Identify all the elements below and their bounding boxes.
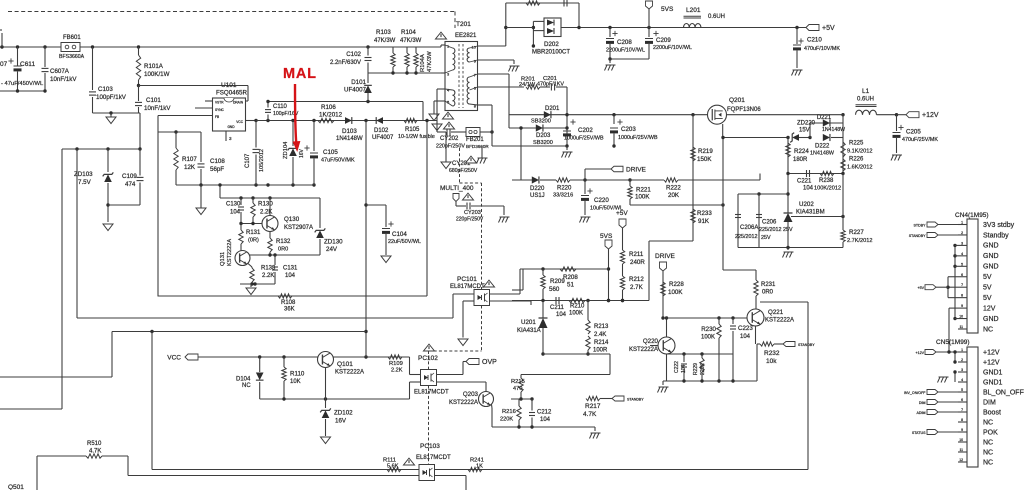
- svg-text:ZD104: ZD104: [283, 141, 289, 159]
- svg-text:C220: C220: [594, 197, 609, 204]
- svg-text:R221: R221: [636, 187, 651, 194]
- svg-text:R230: R230: [701, 326, 716, 333]
- svg-text:+12V: +12V: [983, 349, 1000, 356]
- svg-text:STANDBY: STANDBY: [909, 234, 926, 238]
- svg-text:C101: C101: [146, 97, 161, 104]
- svg-text:100K/1W: 100K/1W: [144, 71, 170, 78]
- svg-text:47K/3W: 47K/3W: [427, 51, 433, 72]
- svg-text:20K: 20K: [668, 192, 680, 199]
- svg-text:10k: 10k: [766, 358, 777, 365]
- svg-text:220pF/250V: 220pF/250V: [436, 144, 465, 150]
- svg-text:Q131: Q131: [220, 252, 226, 266]
- svg-text:R209: R209: [550, 278, 565, 285]
- svg-text:10: 10: [959, 438, 963, 442]
- svg-text:11: 11: [959, 448, 963, 452]
- svg-text:STATUS: STATUS: [912, 431, 926, 435]
- svg-text:GND: GND: [983, 316, 999, 323]
- svg-text:Q130: Q130: [284, 216, 300, 223]
- svg-text:1: 1: [961, 348, 963, 352]
- svg-text:CN5(1M99): CN5(1M99): [936, 339, 970, 346]
- svg-text:NC: NC: [983, 449, 993, 456]
- svg-text:1N4148W: 1N4148W: [336, 136, 363, 142]
- svg-text:R133: R133: [261, 266, 276, 272]
- svg-text:9.1K/2012: 9.1K/2012: [847, 149, 873, 155]
- svg-text:474: 474: [125, 181, 136, 188]
- svg-text:C109: C109: [122, 173, 137, 180]
- svg-text:R219: R219: [698, 148, 713, 155]
- svg-text:D103: D103: [342, 128, 357, 135]
- svg-text:Q101: Q101: [337, 361, 353, 368]
- svg-text:BFD3660R: BFD3660R: [466, 144, 489, 149]
- svg-text:1K/2012: 1K/2012: [319, 112, 343, 119]
- svg-text:C131: C131: [283, 266, 298, 272]
- svg-text:100K: 100K: [701, 335, 715, 341]
- svg-text:11: 11: [959, 325, 963, 329]
- svg-text:0.6UH: 0.6UH: [708, 14, 725, 20]
- svg-text:680pF/250V: 680pF/250V: [449, 168, 478, 174]
- svg-text:R110: R110: [290, 371, 305, 378]
- svg-text:R108: R108: [281, 300, 296, 306]
- svg-text:C211: C211: [550, 305, 565, 311]
- svg-text:12: 12: [959, 458, 963, 462]
- svg-text:R216: R216: [502, 409, 516, 415]
- svg-text:4: 4: [961, 378, 963, 382]
- svg-text:MAL: MAL: [283, 66, 317, 82]
- svg-text:U202: U202: [799, 201, 814, 208]
- svg-text:07: 07: [0, 61, 8, 68]
- svg-text:R132: R132: [276, 239, 291, 245]
- svg-text:R106: R106: [321, 104, 336, 111]
- svg-text:+5V: +5V: [918, 286, 925, 290]
- svg-text:2.4K: 2.4K: [594, 332, 606, 338]
- svg-text:470pF/1KV: 470pF/1KV: [537, 82, 564, 88]
- svg-text:7.5V: 7.5V: [78, 179, 92, 186]
- svg-text:R232: R232: [764, 350, 780, 357]
- svg-text:R233: R233: [697, 210, 712, 217]
- svg-text:C203: C203: [621, 126, 636, 133]
- svg-text:R109: R109: [389, 361, 403, 367]
- svg-text:5.6K: 5.6K: [387, 464, 399, 470]
- svg-text:51: 51: [567, 282, 574, 289]
- svg-text:D101: D101: [351, 79, 366, 86]
- svg-text:CY203: CY203: [464, 210, 481, 216]
- svg-text:8: 8: [961, 294, 963, 298]
- svg-text:C107: C107: [245, 153, 251, 168]
- svg-text:R214: R214: [594, 340, 609, 346]
- svg-text:100K: 100K: [635, 194, 650, 201]
- svg-text:C108: C108: [210, 158, 225, 165]
- svg-text:SYNC: SYNC: [215, 108, 225, 112]
- svg-text:+12V: +12V: [922, 112, 939, 119]
- svg-text:C611: C611: [20, 61, 35, 68]
- svg-text:C222: C222: [674, 361, 680, 373]
- svg-text:Standby: Standby: [983, 232, 1009, 239]
- svg-text:CY202: CY202: [440, 136, 459, 142]
- svg-text:INV_ON/OFF: INV_ON/OFF: [904, 391, 926, 395]
- svg-text:D221: D221: [817, 115, 832, 121]
- svg-text:STANDBY: STANDBY: [798, 343, 815, 347]
- svg-text:220K: 220K: [700, 363, 706, 375]
- svg-text:5VS: 5VS: [600, 233, 613, 240]
- svg-text:FB: FB: [215, 115, 219, 119]
- svg-text:220pF/250V: 220pF/250V: [456, 217, 484, 223]
- svg-text:R101A: R101A: [144, 63, 164, 70]
- svg-text:R210: R210: [570, 304, 585, 310]
- svg-text:D201: D201: [545, 106, 560, 112]
- svg-text:R231: R231: [761, 282, 776, 288]
- svg-text:PC101: PC101: [457, 276, 477, 283]
- svg-text:R226: R226: [849, 157, 864, 163]
- svg-text:470uF/10V/MK: 470uF/10V/MK: [804, 46, 840, 52]
- svg-text:GND: GND: [227, 125, 235, 129]
- svg-text:100K/2012: 100K/2012: [814, 186, 841, 192]
- svg-text:R220: R220: [557, 186, 572, 192]
- svg-text:+5V: +5V: [616, 210, 628, 217]
- svg-text:DIM: DIM: [983, 399, 996, 406]
- svg-text:15V: 15V: [799, 128, 810, 134]
- svg-text:100K: 100K: [569, 311, 583, 317]
- svg-text:R225: R225: [849, 141, 864, 147]
- svg-text:(0R): (0R): [248, 238, 259, 244]
- svg-text:+12V: +12V: [916, 351, 925, 355]
- svg-text:R103: R103: [376, 29, 391, 36]
- svg-text:KST2222A: KST2222A: [765, 318, 794, 324]
- svg-text:+12V: +12V: [983, 359, 1000, 366]
- svg-text:C206A: C206A: [740, 225, 758, 231]
- svg-text:KST2222A: KST2222A: [335, 370, 364, 376]
- svg-text:1: 1: [961, 221, 963, 225]
- svg-text:91K: 91K: [698, 218, 710, 225]
- svg-text:L1: L1: [862, 88, 870, 95]
- svg-text:1000uF/25V/WB: 1000uF/25V/WB: [564, 136, 604, 142]
- svg-text:C205: C205: [906, 129, 921, 136]
- svg-text:VCC: VCC: [236, 120, 243, 124]
- svg-text:STDBY: STDBY: [914, 224, 927, 228]
- svg-text:DRIVE: DRIVE: [655, 253, 676, 260]
- svg-text:EL817MCDT: EL817MCDT: [416, 455, 451, 461]
- svg-text:R215: R215: [511, 379, 525, 385]
- svg-text:FB201: FB201: [466, 137, 484, 143]
- svg-text:C212: C212: [537, 410, 552, 416]
- svg-text:VCC: VCC: [167, 355, 181, 362]
- svg-text:NC: NC: [983, 459, 993, 466]
- svg-text:POK: POK: [983, 429, 998, 436]
- svg-text:5V: 5V: [983, 295, 992, 302]
- svg-text:4.7K: 4.7K: [89, 449, 101, 455]
- svg-text:+5V: +5V: [822, 25, 835, 32]
- svg-text:R105: R105: [405, 127, 420, 133]
- svg-text:104: 104: [740, 334, 751, 340]
- svg-text:ZD103: ZD103: [74, 171, 93, 178]
- svg-text:PC102: PC102: [418, 355, 438, 362]
- svg-text:R213: R213: [594, 324, 609, 330]
- svg-text:UF4007: UF4007: [344, 87, 367, 94]
- svg-text:12K: 12K: [184, 164, 196, 171]
- svg-text:0R0: 0R0: [278, 247, 288, 253]
- svg-text:C105: C105: [323, 149, 338, 156]
- svg-text:2: 2: [961, 231, 963, 235]
- svg-text:5: 5: [961, 388, 963, 392]
- svg-text:5: 5: [961, 262, 963, 266]
- svg-text:16V: 16V: [335, 418, 347, 425]
- svg-text:KST2222A: KST2222A: [227, 239, 233, 266]
- svg-text:D203: D203: [536, 133, 551, 139]
- svg-text:L201: L201: [686, 7, 701, 14]
- svg-text:DRAIN: DRAIN: [233, 101, 244, 105]
- svg-text:6: 6: [961, 273, 963, 277]
- svg-text:D220: D220: [530, 186, 545, 192]
- svg-text:DIM: DIM: [919, 401, 926, 405]
- svg-text:KIA431BM: KIA431BM: [796, 210, 825, 216]
- svg-text:KIA431A: KIA431A: [517, 328, 541, 334]
- svg-text:0R0: 0R0: [762, 290, 774, 296]
- svg-text:U201: U201: [521, 319, 536, 326]
- svg-text:47K/3W: 47K/3W: [400, 38, 422, 44]
- svg-text:8: 8: [961, 418, 963, 422]
- svg-text:MBR20100CT: MBR20100CT: [532, 50, 570, 56]
- svg-text:0.6UH: 0.6UH: [857, 97, 874, 103]
- svg-text:NC: NC: [983, 439, 993, 446]
- svg-text:C102: C102: [346, 51, 361, 58]
- svg-text:10nF/1kV: 10nF/1kV: [144, 105, 171, 112]
- svg-text:R104A: R104A: [420, 54, 426, 72]
- svg-text:R211: R211: [629, 251, 644, 258]
- svg-text:R107: R107: [182, 156, 197, 163]
- svg-text:2200uF/10V/WL: 2200uF/10V/WL: [653, 45, 692, 51]
- svg-text:104: 104: [540, 417, 551, 423]
- svg-text:24V: 24V: [326, 246, 338, 253]
- svg-text:R228: R228: [669, 281, 684, 288]
- svg-text:NC: NC: [242, 383, 251, 389]
- svg-text:9: 9: [961, 428, 963, 432]
- svg-text:220K: 220K: [500, 417, 513, 423]
- svg-text:STANDBY: STANDBY: [627, 398, 644, 402]
- svg-text:GND: GND: [983, 253, 999, 260]
- svg-text:R224: R224: [794, 148, 809, 155]
- svg-text:100K: 100K: [668, 289, 683, 296]
- svg-text:3: 3: [961, 368, 963, 372]
- svg-text:10K: 10K: [290, 379, 301, 385]
- svg-text:560: 560: [549, 286, 560, 293]
- svg-text:1000uF/25V/WB: 1000uF/25V/WB: [618, 135, 658, 141]
- svg-text:24/1W: 24/1W: [519, 82, 536, 88]
- svg-text:D104: D104: [236, 377, 251, 383]
- svg-text:FQPF13N06: FQPF13N06: [727, 107, 761, 113]
- svg-text:R217: R217: [585, 403, 601, 410]
- svg-text:R208: R208: [563, 274, 578, 281]
- svg-text:Q220: Q220: [643, 338, 659, 345]
- svg-text:22uF/50V/WL: 22uF/50V/WL: [388, 239, 421, 245]
- svg-text:Q201: Q201: [729, 97, 745, 104]
- svg-text:47K/3W: 47K/3W: [374, 38, 396, 44]
- svg-text:104: 104: [556, 312, 567, 318]
- svg-text:R131: R131: [246, 230, 261, 236]
- svg-text:BFS3660A: BFS3660A: [59, 54, 85, 60]
- svg-text:ADIM: ADIM: [917, 411, 926, 415]
- svg-text:U101: U101: [221, 82, 237, 89]
- svg-text:R212: R212: [629, 276, 644, 283]
- svg-text:C103: C103: [98, 86, 113, 93]
- svg-text:R222: R222: [666, 185, 681, 192]
- svg-text:100pF/1kV: 100pF/1kV: [96, 94, 127, 101]
- svg-text:Boost: Boost: [983, 409, 1001, 416]
- svg-text:3V3 stdby: 3V3 stdby: [983, 222, 1015, 229]
- svg-text:104: 104: [803, 186, 814, 192]
- svg-text:1K: 1K: [476, 464, 483, 470]
- svg-text:- 47uF/450V/WL: - 47uF/450V/WL: [1, 81, 44, 87]
- svg-text:SB3200: SB3200: [533, 140, 553, 146]
- svg-text:R130: R130: [258, 201, 273, 208]
- svg-text:C130: C130: [226, 202, 241, 208]
- svg-text:KST2222A: KST2222A: [629, 347, 658, 353]
- svg-text:C208: C208: [617, 39, 632, 46]
- svg-text:MULTI_400: MULTI_400: [440, 185, 474, 192]
- svg-text:2.2K: 2.2K: [391, 368, 403, 374]
- svg-text:36K: 36K: [284, 307, 295, 313]
- svg-text:10: 10: [959, 315, 963, 319]
- svg-text:225/2012 25V: 225/2012 25V: [759, 227, 793, 233]
- svg-text:R238: R238: [819, 178, 834, 184]
- svg-text:GND: GND: [983, 264, 999, 271]
- svg-text:R229: R229: [693, 363, 699, 375]
- svg-text:VSTR: VSTR: [215, 101, 224, 105]
- svg-text:150K: 150K: [697, 156, 712, 163]
- svg-text:C209: C209: [656, 37, 671, 44]
- svg-text:5V: 5V: [983, 274, 992, 281]
- svg-text:KST2907A: KST2907A: [284, 225, 313, 231]
- svg-text:4: 4: [961, 252, 963, 256]
- svg-text:D102: D102: [374, 128, 389, 134]
- svg-text:33/3216: 33/3216: [553, 193, 573, 199]
- svg-text:C221: C221: [797, 179, 812, 185]
- svg-text:5VS: 5VS: [661, 6, 674, 13]
- svg-text:10nF/1kV: 10nF/1kV: [50, 76, 77, 83]
- svg-text:104: 104: [230, 210, 241, 216]
- svg-text:C607A: C607A: [50, 68, 70, 75]
- svg-text:16V: 16V: [299, 148, 305, 158]
- svg-text:Q501: Q501: [8, 484, 24, 490]
- svg-text:470: 470: [513, 386, 522, 392]
- svg-text:US1J: US1J: [530, 193, 545, 199]
- svg-text:C223: C223: [738, 325, 753, 332]
- svg-text:1.6K/2012: 1.6K/2012: [847, 165, 873, 171]
- svg-text:R227: R227: [849, 229, 864, 236]
- svg-text:10-1/2W fusible: 10-1/2W fusible: [398, 134, 435, 140]
- svg-text:D222: D222: [815, 144, 830, 150]
- svg-text:C206: C206: [762, 220, 777, 226]
- svg-text:KST2222A: KST2222A: [449, 400, 478, 406]
- svg-text:25V: 25V: [761, 235, 771, 241]
- svg-text:7: 7: [961, 408, 963, 412]
- svg-text:EE2821: EE2821: [455, 33, 477, 39]
- svg-text:ZD102: ZD102: [334, 410, 353, 417]
- svg-text:4.7K: 4.7K: [583, 411, 597, 418]
- svg-text:CN4(1M95): CN4(1M95): [955, 212, 989, 219]
- svg-text:Q221: Q221: [768, 309, 784, 316]
- svg-text:DRIVE: DRIVE: [626, 167, 647, 174]
- svg-text:56pF: 56pF: [210, 166, 224, 173]
- svg-text:EL817MCDT: EL817MCDT: [414, 390, 449, 396]
- svg-text:NC: NC: [983, 326, 993, 333]
- svg-text:PC103: PC103: [420, 443, 440, 450]
- svg-text:GND1: GND1: [983, 379, 1003, 386]
- svg-text:104: 104: [285, 273, 296, 279]
- svg-text:5V: 5V: [983, 285, 992, 292]
- svg-text:NC: NC: [983, 419, 993, 426]
- svg-text:2.7K/2012: 2.7K/2012: [847, 238, 873, 244]
- svg-text:GND: GND: [983, 243, 999, 250]
- svg-text:SB3200: SB3200: [531, 119, 551, 125]
- svg-text:T201: T201: [456, 21, 471, 28]
- svg-text:R104: R104: [401, 29, 416, 36]
- svg-text:104: 104: [681, 364, 687, 373]
- svg-text:Q203: Q203: [463, 391, 479, 398]
- svg-text:C202: C202: [578, 127, 593, 134]
- svg-text:D202: D202: [544, 41, 559, 48]
- svg-text:180R: 180R: [793, 157, 808, 163]
- svg-text:UF4007: UF4007: [372, 135, 394, 141]
- svg-text:BL_ON_OFF: BL_ON_OFF: [983, 389, 1024, 396]
- svg-text:240R: 240R: [630, 259, 645, 266]
- svg-text:470uF/25V/MK: 470uF/25V/MK: [902, 137, 938, 143]
- svg-text:R510: R510: [87, 441, 102, 447]
- svg-text:12V: 12V: [983, 305, 996, 312]
- svg-text:2.7K: 2.7K: [630, 284, 644, 291]
- svg-text:2.2nF/630V: 2.2nF/630V: [330, 60, 361, 66]
- svg-text:3: 3: [961, 241, 963, 245]
- svg-text:105/2012: 105/2012: [259, 149, 265, 172]
- svg-text:C104: C104: [392, 231, 407, 238]
- svg-text:FSQ0465R: FSQ0465R: [216, 90, 247, 97]
- svg-text:C210: C210: [807, 37, 822, 44]
- svg-text:2: 2: [961, 358, 963, 362]
- svg-text:GND1: GND1: [983, 369, 1003, 376]
- svg-text:6: 6: [961, 398, 963, 402]
- svg-text:47uF/50V/MK: 47uF/50V/MK: [321, 158, 355, 164]
- svg-text:1N4148W: 1N4148W: [810, 151, 835, 157]
- svg-text:ZD130: ZD130: [324, 239, 343, 246]
- svg-text:9: 9: [961, 304, 963, 308]
- svg-text:2.2K: 2.2K: [262, 273, 274, 279]
- svg-text:7: 7: [961, 283, 963, 287]
- svg-text:1N4148W: 1N4148W: [822, 127, 845, 133]
- svg-text:100R: 100R: [593, 348, 608, 354]
- svg-text:225/2012: 225/2012: [735, 234, 757, 240]
- svg-text:2200uF/10V/WL: 2200uF/10V/WL: [606, 48, 645, 54]
- svg-text:OVP: OVP: [482, 359, 497, 366]
- svg-text:C110: C110: [273, 104, 288, 110]
- svg-text:FB601: FB601: [63, 35, 81, 41]
